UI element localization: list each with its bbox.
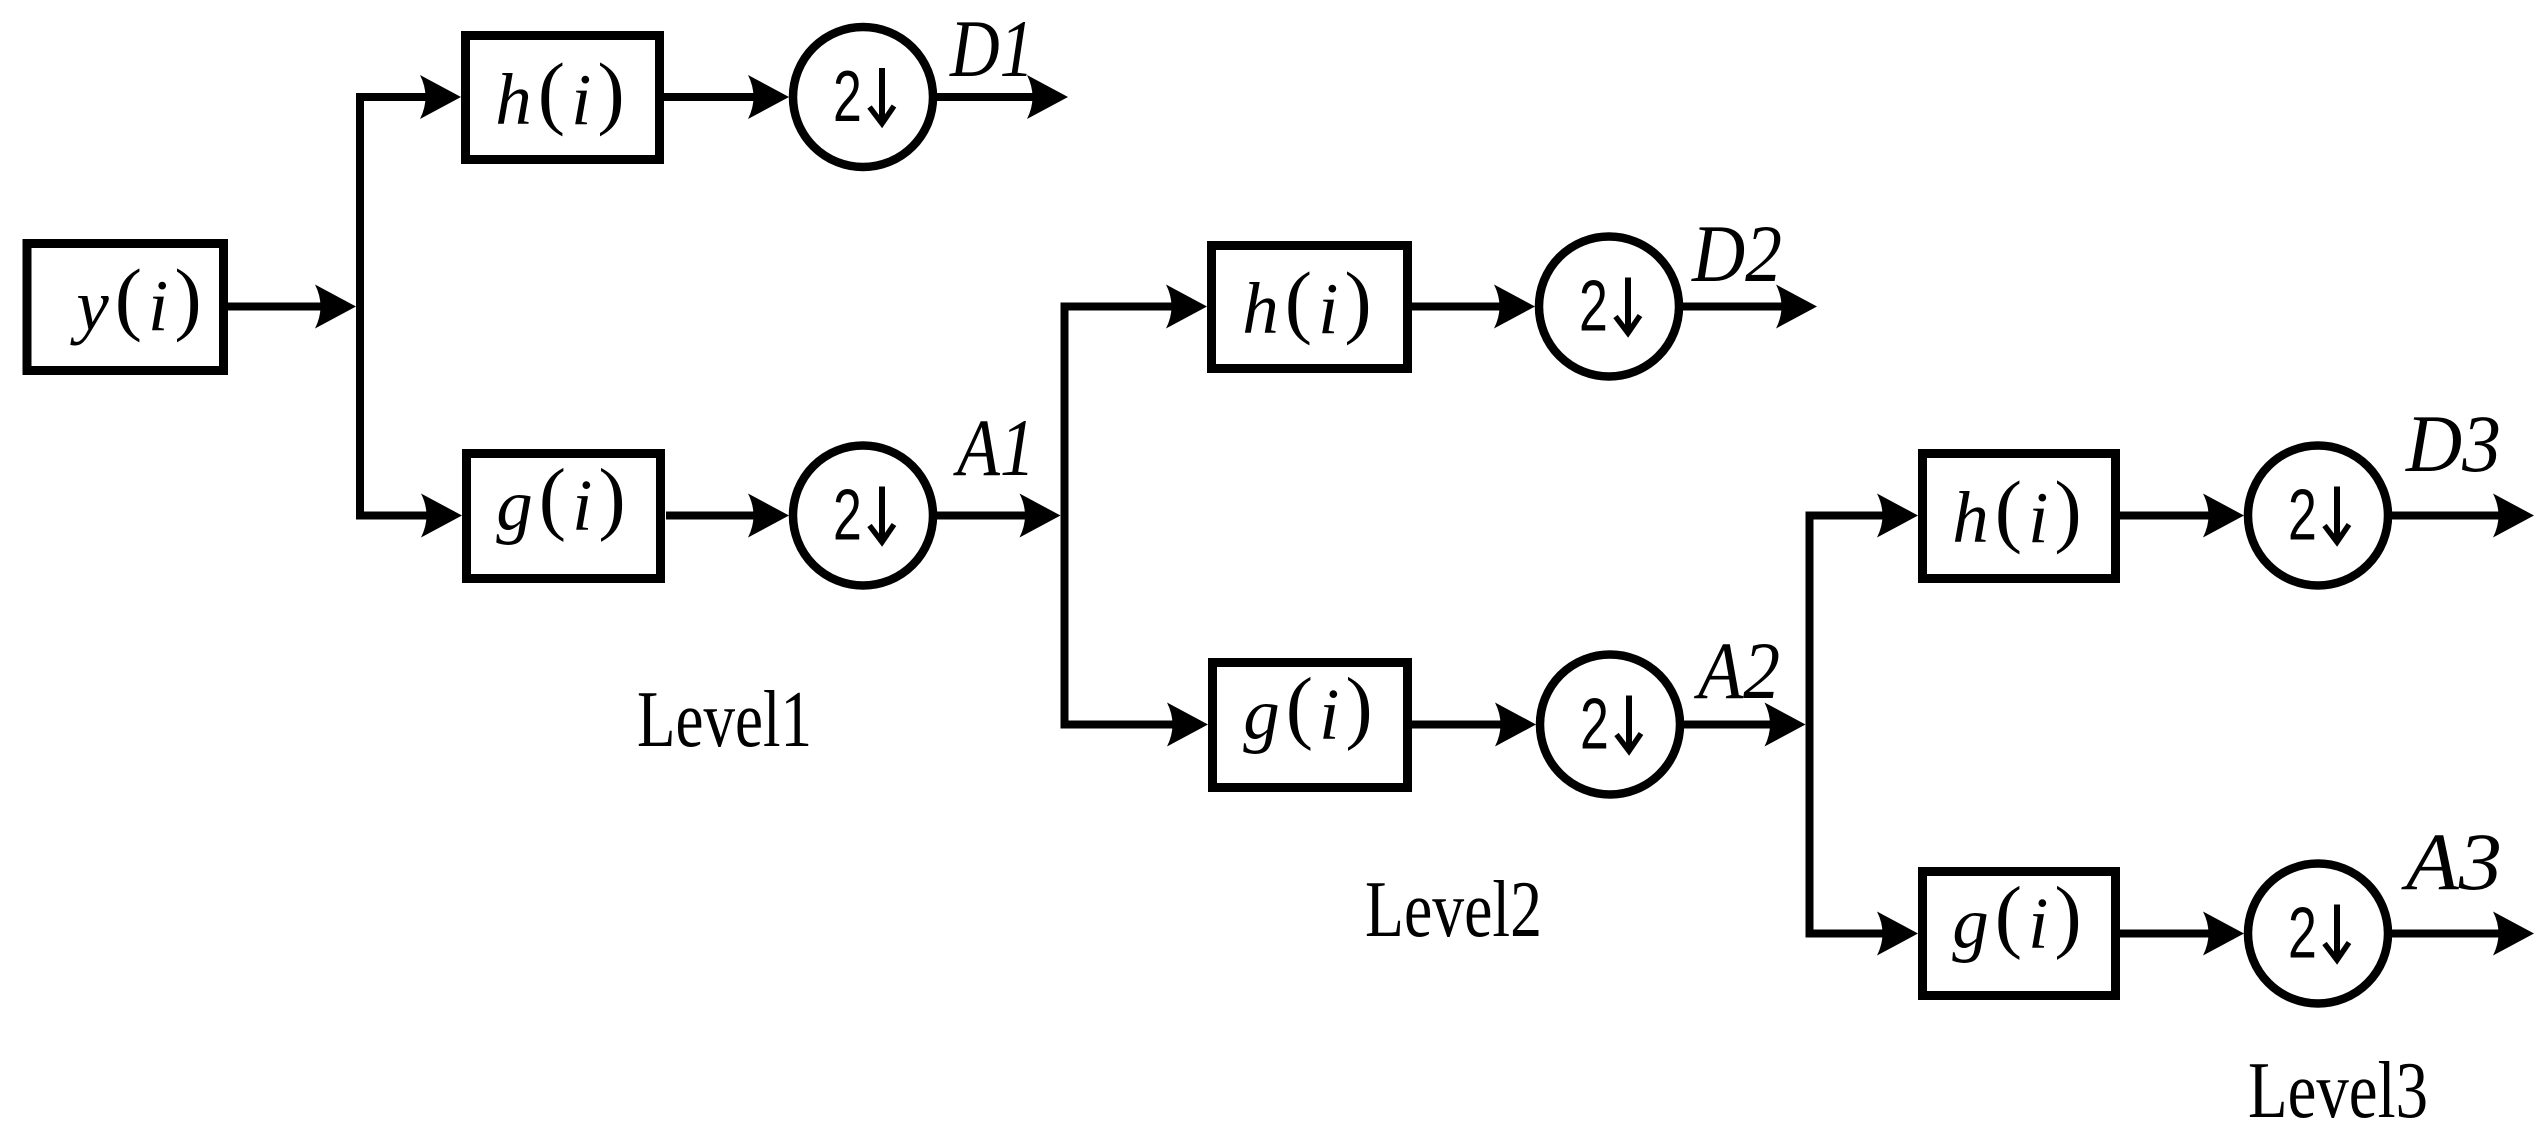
downsampler circle 2↓ level 2 low band: [1540, 655, 1680, 795]
wire J1 to g(i) level 1: [356, 494, 462, 538]
filter h(i) level 1: [466, 36, 660, 160]
downsampler circle 2↓ level 2 high band: [1539, 237, 1679, 377]
svg-text:2: 2: [1579, 266, 1608, 346]
svg-text:h(i): h(i): [495, 46, 624, 140]
wire downsampler A1 to junction J2: [937, 494, 1061, 538]
wire J3 to g(i) level 3: [1806, 912, 1919, 956]
filter g(i) level 3: [1923, 870, 2116, 996]
svg-text:y(i): y(i): [69, 252, 201, 346]
svg-text:Level2: Level2: [1365, 866, 1542, 954]
wire J2 to g(i) level 2: [1061, 703, 1209, 747]
svg-text:2: 2: [2288, 475, 2317, 555]
filter g(i) level 1: [467, 452, 661, 579]
wire junction J2 vertical branch level 2: [1061, 303, 1069, 729]
svg-text:D3: D3: [2405, 398, 2501, 489]
wire J3 to h(i) level 3: [1806, 494, 1919, 538]
wire g(i) level 3 to downsampler A3: [2120, 912, 2244, 956]
filter g(i) level 2: [1213, 661, 1408, 788]
wire downsampler A2 to junction J3: [1684, 703, 1806, 747]
wire downsampler to D3 output arrow: [2392, 494, 2534, 538]
svg-text:A3: A3: [2401, 816, 2502, 907]
wire h(i) level 3 to downsampler D3: [2120, 494, 2244, 538]
svg-text:h(i): h(i): [1242, 255, 1371, 349]
wire junction J3 vertical branch level 3: [1806, 512, 1814, 938]
svg-text:Level3: Level3: [2248, 1047, 2428, 1133]
svg-text:D2: D2: [1691, 208, 1782, 299]
filter h(i) level 3: [1923, 454, 2116, 579]
wire J2 to h(i) level 2: [1061, 285, 1208, 329]
svg-text:g(i): g(i): [1243, 661, 1372, 755]
svg-text:g(i): g(i): [1952, 870, 2081, 964]
svg-text:2: 2: [2288, 893, 2317, 973]
wire h(i) level 1 to downsampler D1: [664, 75, 789, 119]
wire downsampler A3 output arrow: [2392, 912, 2534, 956]
wire h(i) level 2 to downsampler D2: [1412, 285, 1535, 329]
svg-text:2: 2: [1580, 684, 1609, 764]
wire downsampler to D2 output arrow: [1683, 285, 1817, 329]
wire downsampler to D1 output arrow: [937, 75, 1068, 119]
node y(i) input box: [27, 244, 224, 371]
svg-text:g(i): g(i): [496, 452, 625, 546]
wire y(i) output to junction J1: [228, 285, 356, 329]
svg-text:A1: A1: [953, 402, 1035, 493]
svg-text:2: 2: [833, 57, 862, 137]
svg-text:Level1: Level1: [637, 676, 812, 764]
downsampler circle 2↓ level 3 high band: [2248, 446, 2388, 586]
wire g(i) level 2 to downsampler A2: [1412, 703, 1536, 747]
wire junction J1 vertical branch level 1: [356, 93, 364, 520]
svg-text:D1: D1: [949, 3, 1034, 94]
downsampler circle 2↓ level 3 low band: [2248, 864, 2388, 1004]
svg-text:h(i): h(i): [1952, 464, 2081, 558]
downsampler circle 2↓ level 1 low band: [793, 446, 933, 586]
filter h(i) level 2: [1212, 246, 1408, 369]
svg-text:2: 2: [833, 475, 862, 555]
downsampler circle 2↓ level 1 high band: [793, 27, 933, 167]
wire J1 to h(i) level 1: [356, 75, 461, 119]
svg-text:A2: A2: [1693, 625, 1780, 716]
wire g(i) level 1 to downsampler A1: [666, 494, 789, 538]
